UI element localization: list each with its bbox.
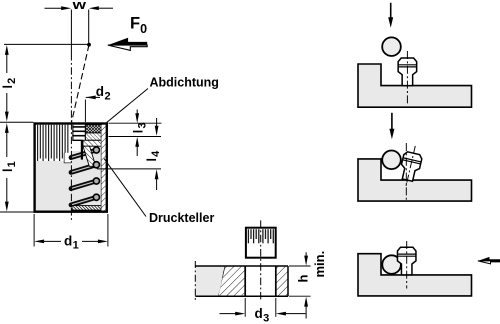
side force arrow white half <box>478 261 500 264</box>
seal stripe lines <box>72 126 85 128</box>
d2 extension line <box>84 100 86 123</box>
l4 bottom arrow <box>155 169 159 179</box>
down arrow 2 shaft <box>391 113 393 130</box>
d1 dimension line left <box>44 240 62 242</box>
small white notch left of centerline <box>64 153 71 163</box>
w extension line right <box>88 10 90 45</box>
l4 bottom arrow shaft <box>156 179 158 191</box>
d2 dimension line <box>86 96 100 98</box>
plate bottom line <box>195 295 288 297</box>
druckteller stem bar <box>81 140 83 159</box>
dimension w line left segment <box>45 7 63 9</box>
plate break line <box>218 266 225 296</box>
h top arrow shaft <box>305 252 307 256</box>
l1 dimension bottom arrow <box>5 202 9 212</box>
body white interior <box>33 122 108 213</box>
body top extension line left <box>0 121 34 123</box>
pin tip node dot <box>87 43 91 47</box>
svg-text:min.: min. <box>312 251 327 278</box>
d3 left arrow shaft <box>220 313 236 315</box>
seal bottom extension line <box>109 136 162 138</box>
l2 dimension line upper <box>6 54 8 73</box>
clamp block 1 <box>358 64 472 107</box>
h extension line top <box>289 265 311 267</box>
l2 dimension top arrow <box>5 45 9 55</box>
Druckteller leader line <box>104 159 146 217</box>
knurled plug body <box>246 228 276 258</box>
plate top surface line <box>195 265 288 267</box>
d3 extension line left <box>244 298 246 317</box>
body centerline dash-dot upper <box>70 53 72 122</box>
body outline <box>35 124 107 212</box>
down arrow 2 head <box>389 129 394 140</box>
F0 force arrow white half <box>108 45 147 50</box>
body top extension line right <box>109 122 162 124</box>
svg-text:Abdichtung: Abdichtung <box>150 75 219 89</box>
plate left break centerline <box>194 261 196 302</box>
horizontal extension line at pin tip <box>4 43 89 45</box>
l3 bottom arrow shaft <box>136 146 138 156</box>
l3 bottom arrow <box>135 137 139 147</box>
svg-text:w: w <box>71 0 86 12</box>
h bottom arrow <box>304 297 308 307</box>
side thrust pin 1 <box>398 58 417 86</box>
druckteller flange hatched <box>83 140 101 146</box>
svg-text:Druckteller: Druckteller <box>149 211 214 225</box>
l4 top arrow <box>155 126 159 136</box>
tilted pin axis dashed <box>72 45 90 123</box>
body wall hatched section <box>101 125 105 211</box>
d3 right arrow shaft <box>286 313 306 315</box>
hole left edge <box>244 266 246 296</box>
plunger 1 centerline <box>406 51 408 105</box>
druckteller top line <box>72 139 82 141</box>
d3 left arrow <box>235 312 245 316</box>
workpiece ball 3 <box>382 255 401 274</box>
d1 dimension arrow left <box>34 240 44 244</box>
body grey area right (spring chamber) <box>72 151 101 206</box>
d3 right arrow <box>276 312 286 316</box>
seal cross-hatched block upper <box>85 125 101 133</box>
dimension w arrow left <box>61 6 71 10</box>
F0 force arrow black half <box>108 38 147 45</box>
plunger 2 centerline vertical <box>405 143 407 201</box>
l3 top arrow shaft <box>136 110 138 115</box>
side thrust pin 3 <box>397 247 416 275</box>
clamp block 2 <box>358 159 472 201</box>
bottom spring seat closure <box>72 206 101 211</box>
side force arrow black half <box>478 257 500 261</box>
h top arrow <box>304 256 308 266</box>
d1 extension line right <box>107 214 109 247</box>
body wall inner edge <box>100 125 102 211</box>
seal hatched block lower <box>85 133 101 140</box>
workpiece ball 2 <box>382 151 401 170</box>
d1 dimension line right <box>82 240 99 242</box>
plate hatched region right of hole <box>276 266 288 296</box>
d2 dimension arrow <box>86 96 96 100</box>
plunger 3 centerline <box>406 241 408 289</box>
Abdichtung leader line <box>107 89 149 123</box>
spring coil bars <box>71 150 96 205</box>
w extension line left / upper centerline solid part <box>70 10 72 54</box>
druckteller skirt hatched <box>83 146 96 166</box>
workpiece ball 1 <box>382 37 401 56</box>
svg-text:h: h <box>296 275 311 283</box>
plate right edge <box>287 266 289 296</box>
l1 dimension line lower <box>6 178 8 203</box>
body grey unsectioned area left <box>36 161 72 211</box>
l1 dimension line upper <box>6 132 8 157</box>
h extension line bottom <box>289 295 311 297</box>
body centerline dash-dot inside body <box>70 122 72 222</box>
side thrust pin 2 tilted <box>397 144 424 188</box>
l3 top arrow <box>135 113 139 123</box>
plate grey left region <box>195 266 225 296</box>
plug knurl lines <box>248 229 273 243</box>
dimension w arrow right <box>89 6 99 10</box>
seal pin-bore left edge <box>72 125 74 141</box>
l2 dimension line lower <box>6 93 8 113</box>
l4 top arrow shaft <box>156 118 158 126</box>
spring coil end circles <box>93 147 99 201</box>
dimension w line right segment <box>99 7 113 9</box>
druckteller bottom extension line <box>97 168 161 170</box>
knurling lines on body left half <box>38 125 68 162</box>
body bottom extension line left <box>0 211 34 213</box>
plate hatched region left of hole <box>218 266 245 296</box>
d1 extension line left <box>33 214 35 247</box>
pin right edge line <box>84 125 86 141</box>
d1 dimension arrow right <box>98 240 108 244</box>
d3 extension line right <box>275 298 277 317</box>
l2 dimension bottom arrow <box>5 112 9 122</box>
l1 dimension top arrow <box>5 123 9 133</box>
down arrow 1 shaft <box>390 3 392 19</box>
down arrow 1 head <box>388 17 393 28</box>
plug centerline <box>260 220 262 301</box>
clamp block 3 <box>358 254 472 296</box>
h bottom arrow shaft <box>305 306 307 319</box>
hole right edge <box>275 266 277 296</box>
